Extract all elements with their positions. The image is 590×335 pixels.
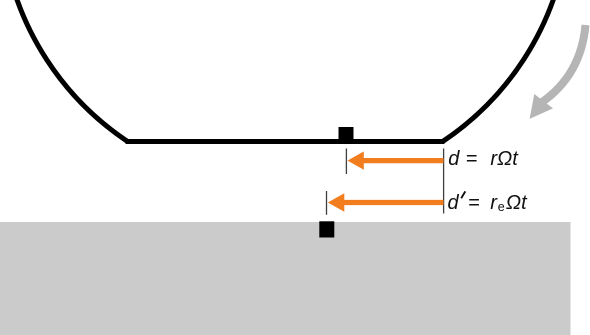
tick above ground marker [326, 191, 328, 215]
wheel arc [1, 0, 570, 141]
marker square on wheel rim [339, 127, 354, 140]
ground slab [0, 222, 571, 335]
orange arrow d head [348, 151, 364, 169]
label d' = r_e Omega t [448, 193, 459, 213]
rotation arrow shaft [542, 25, 586, 103]
right tick (common origin) [443, 149, 445, 214]
label d = rOmega t [448, 149, 459, 169]
rotation arrow head [530, 94, 553, 119]
tick under wheel marker [345, 149, 347, 175]
wheel flat (contact chord) [126, 139, 445, 144]
orange arrow d' shaft [341, 200, 444, 205]
orange arrow d' head [328, 193, 345, 211]
marker square on ground [319, 221, 334, 237]
prime mark on d' [461, 191, 465, 198]
orange arrow d shaft [361, 158, 444, 163]
